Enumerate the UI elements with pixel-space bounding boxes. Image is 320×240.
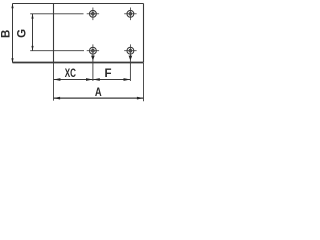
- arrow B top: [11, 3, 13, 8]
- arrow at hole column 1 pointing down to plate edge: [91, 56, 95, 61]
- arrow G top: [31, 14, 33, 19]
- wire: plate top edge + B top extension line: [13, 3, 144, 5]
- wire: right extension line below plate: [143, 63, 145, 101]
- svg-text:XC: XC: [65, 68, 76, 80]
- svg-text:G: G: [17, 29, 29, 38]
- wire: G top extension line to hole row 1: [30, 13, 83, 15]
- hole H4 bottom-right: [124, 44, 136, 57]
- arrow A left: [54, 97, 61, 100]
- dimension A line: [54, 97, 144, 99]
- hole H1 top-left: [87, 8, 99, 21]
- arrow F left (bowtie right half): [93, 78, 100, 81]
- dimension G line: [32, 14, 34, 51]
- arrow at hole column 2 pointing down to plate edge: [129, 56, 133, 61]
- dimension B line: [12, 4, 14, 63]
- arrow G bottom: [31, 46, 33, 51]
- wire: plate right edge: [143, 4, 145, 63]
- arrow F right: [124, 78, 131, 81]
- wire: extension line below hole column 1: [92, 55, 94, 81]
- hole H3 bottom-left: [87, 44, 99, 57]
- wire: extension line below hole column 2: [129, 55, 131, 81]
- wire: plate bottom edge + B bottom extension line (thick merged): [13, 62, 144, 64]
- dimension XC/F line: [54, 79, 131, 81]
- arrow XC right (bowtie left half): [86, 78, 93, 81]
- hole H2 top-right: [124, 8, 136, 21]
- wire: G bottom extension line to hole row 2: [30, 50, 84, 52]
- wire: left extension line below plate: [53, 63, 55, 101]
- arrow A right: [137, 97, 144, 100]
- arrow XC left: [54, 78, 61, 81]
- wire: plate left edge: [53, 4, 55, 63]
- arrow B bottom: [11, 58, 13, 63]
- svg-text:A: A: [95, 87, 102, 99]
- svg-text:B: B: [1, 30, 13, 38]
- svg-text:F: F: [104, 68, 111, 80]
